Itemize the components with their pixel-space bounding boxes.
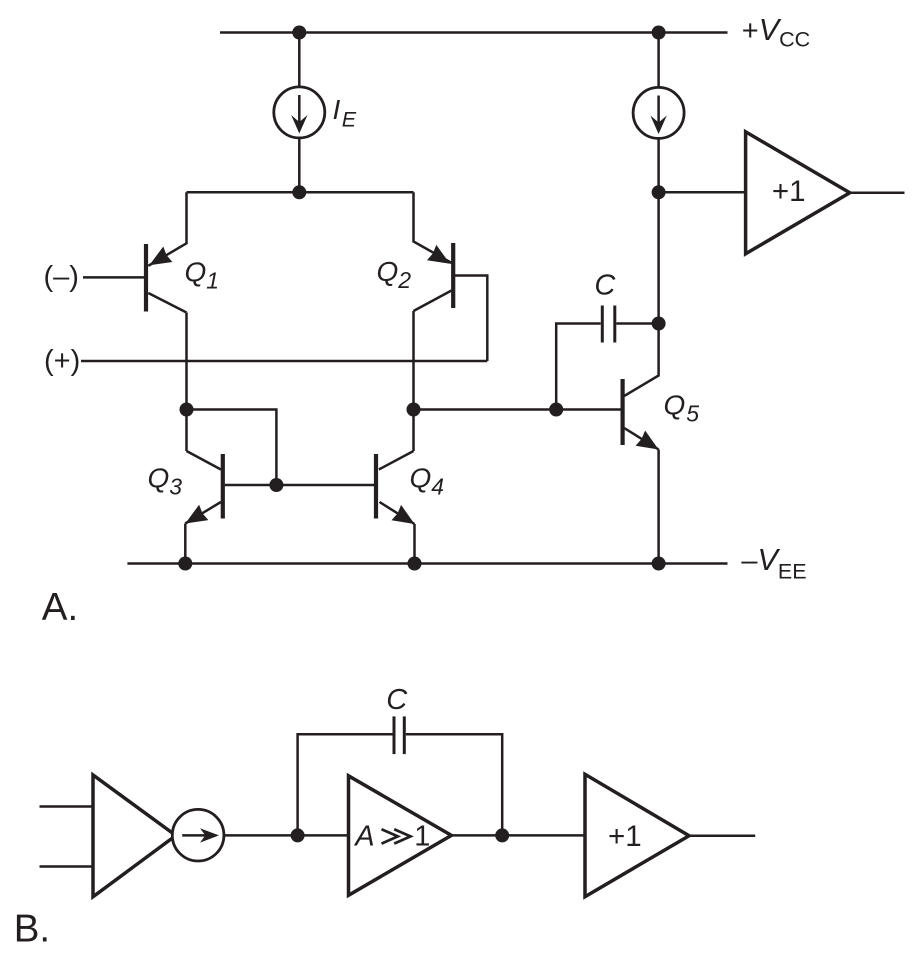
capacitor C plates [602,306,615,343]
node bottom rail dot Q4 [408,557,422,571]
current source IE circle [274,87,325,138]
svg-text:(+): (+) [44,345,80,377]
transistor Q4 [376,451,415,524]
wire circle to gain stage [224,834,348,837]
node Q1 collector junction dot [180,403,194,417]
wire feedback left leg [298,734,393,835]
wire Vcc to current source 2 [657,33,660,88]
wire gain stage output [451,834,585,837]
op-amp gain stage triangle A>>1 [349,776,452,896]
wire current source IE to emitter node [298,138,301,192]
svg-text:Q5: Q5 [664,390,700,427]
svg-text:Q4: Q4 [410,463,445,500]
wire B output [689,834,755,837]
node bottom rail dot Q5 [652,557,666,571]
current source 2 circle [633,87,684,138]
wire cap right plate to collector node [616,322,658,325]
wire Q1 emitter drop [148,192,186,265]
node bottom rail dot Q3 [178,557,192,571]
wire Q1 collector down [185,313,188,452]
svg-text:+VCC: +VCC [742,13,810,51]
transistor Q5 [623,379,659,450]
node cap-collector junction dot [652,317,666,331]
wire buffer output [850,192,905,195]
wire current source 2 to Q5 collector [624,138,658,396]
node gain stage output dot [495,828,509,842]
svg-text:Q2: Q2 [377,256,412,293]
node buffer input junction dot [652,185,666,199]
svg-text:–VEE: –VEE [741,543,806,583]
wire Q5 emitter to -Vee [657,450,660,564]
svg-text:+1: +1 [772,175,806,208]
wire Q2 base feedback to (+) line [455,276,487,362]
wire feedback right leg [406,734,502,835]
wire B input bottom [40,865,94,868]
wire Vcc to current source IE [298,33,301,87]
svg-text:(–): (–) [44,261,79,293]
wire Q4 emitter to -Vee [413,524,416,564]
transistor Q2 [414,243,454,311]
wire emitter rail Q1-Q2 [187,191,414,194]
wire B input top [40,805,94,808]
wire Q3-Q4 base line [225,484,374,487]
node gain stage input dot [291,828,305,842]
wire (+) input line [81,360,487,363]
node Q3-Q4 base junction dot [269,478,283,492]
current source output circle (section B) [172,809,224,861]
svg-text:B.: B. [14,908,50,951]
label A>>1 gain [353,821,430,853]
op-amp buffer +1 (section A) [746,132,850,254]
wire Q2 emitter drop [414,192,452,263]
op-amp input stage triangle (section B) [93,775,176,897]
svg-text:IE: IE [333,94,357,131]
op-amp buffer +1 (section B) [585,774,689,896]
transistor Q1 [146,244,187,313]
wire gain node to Q5 base [414,408,621,411]
svg-text:1: 1 [414,821,430,853]
svg-text:C: C [386,684,408,716]
node junction dot top rail left [292,26,306,40]
node emitter junction dot [292,185,306,199]
wire mirror tie to Q3-Q4 bases [187,410,277,486]
svg-text:+1: +1 [608,820,642,853]
transistor Q3 [185,451,223,524]
svg-text:C: C [594,270,616,302]
wire compensation cap left leg [556,324,601,410]
svg-text:A.: A. [42,586,78,629]
wire to output buffer [659,191,746,194]
node Q5 base junction dot [549,403,563,417]
svg-text:Q1: Q1 [185,257,220,294]
wire -Vee bottom rail [127,562,727,565]
wire Q3 emitter to -Vee [184,524,187,564]
node Q2-Q4 collector junction dot [407,403,421,417]
wire +Vcc top rail [220,31,728,34]
svg-text:A: A [353,821,374,853]
svg-text:Q3: Q3 [148,463,183,500]
wire Q2 collector down [412,311,415,451]
capacitor C plates (section B) [394,716,404,754]
wire (-) input to Q1 base [83,276,144,279]
node junction dot top rail right [652,26,666,40]
